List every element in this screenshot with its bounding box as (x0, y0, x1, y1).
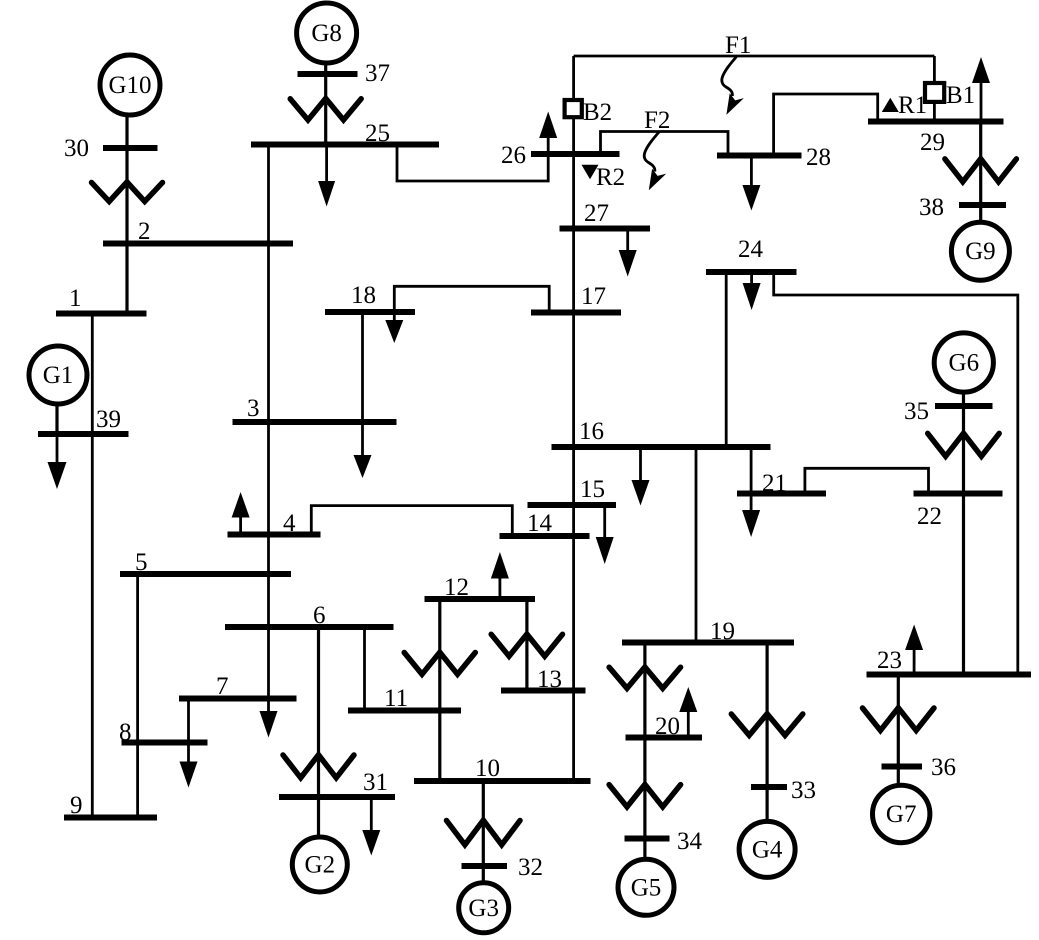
wire 7-8 and load arrow bus 8 (187, 699, 190, 763)
wire G7 leg (897, 675, 900, 786)
transformer T38 (G9) (945, 159, 1017, 182)
svg-text:19: 19 (710, 618, 735, 645)
wire G3 leg (482, 781, 485, 883)
transformer T12a (12-11) (404, 652, 475, 674)
svg-text:30: 30 (64, 135, 89, 162)
transformer T20b (20-34) (609, 784, 681, 806)
wire 16-24 (725, 272, 728, 447)
svg-text:G10: G10 (108, 72, 151, 99)
svg-text:32: 32 (518, 854, 543, 881)
bus 6 (225, 624, 394, 630)
svg-text:14: 14 (527, 510, 553, 537)
wire 4-14 (311, 506, 512, 536)
wire F2 line 26-28 (601, 132, 729, 156)
generator G2 (292, 837, 347, 892)
bus 13 (501, 688, 586, 694)
bus 27 (560, 226, 651, 232)
transformer T33 (19-33) (731, 714, 803, 736)
generator G8 (297, 3, 357, 63)
svg-text:G2: G2 (305, 852, 336, 879)
generator G3 (459, 883, 509, 933)
bus 3 (233, 419, 397, 425)
svg-text:22: 22 (917, 503, 942, 530)
bus 21 (737, 491, 826, 497)
load arrow below bus 7 (260, 711, 278, 738)
bus 24 (706, 269, 797, 275)
generator G10 (100, 55, 160, 115)
bus 10 (414, 778, 591, 784)
svg-text:21: 21 (762, 470, 787, 497)
gen arrow bus 12 (498, 578, 501, 600)
relay R2 triangle (582, 165, 599, 179)
relay R1 triangle (882, 98, 899, 112)
bus 33 (751, 784, 787, 790)
bus 11 (348, 708, 461, 714)
svg-text:G7: G7 (886, 801, 917, 828)
bus 38 (959, 202, 1006, 208)
svg-text:18: 18 (351, 282, 376, 309)
wire G10 to bus 2 to bus 1 (125, 115, 128, 314)
wire 12-11-10 left leg (438, 599, 441, 781)
bus 31 (279, 794, 395, 800)
svg-text:G4: G4 (752, 836, 783, 863)
svg-text:G1: G1 (43, 362, 74, 389)
svg-text:31: 31 (363, 769, 388, 796)
svg-text:27: 27 (584, 200, 609, 227)
svg-text:34: 34 (677, 828, 703, 855)
wire 1-39-9 (91, 314, 94, 818)
svg-text:12: 12 (444, 574, 469, 601)
load arrow bus 31 (370, 797, 373, 831)
wire 16-21 and load arrow bus 21 (750, 447, 753, 511)
transformer T35 (G6) (928, 433, 1000, 456)
breaker B1 (925, 83, 944, 102)
svg-text:8: 8 (119, 719, 132, 746)
bus 19 (622, 640, 794, 646)
svg-text:35: 35 (904, 398, 929, 425)
wire 19-33 G4 leg (765, 643, 768, 822)
wire G8 leg to bus 25 (324, 63, 327, 145)
wire G6-35-22-23 (962, 392, 965, 675)
svg-text:23: 23 (877, 647, 902, 674)
bus 15 (528, 502, 617, 508)
svg-text:F2: F2 (644, 107, 670, 134)
svg-text:G9: G9 (965, 238, 996, 265)
transformer T20a (19-20) (609, 667, 681, 688)
bus 26 (531, 151, 620, 157)
wire drop through B1 to bus 29 (933, 56, 936, 122)
wire 28 up to 29 (774, 94, 878, 156)
svg-text:R2: R2 (596, 164, 625, 191)
generator G6 (934, 333, 993, 392)
wire 12-13 right leg (525, 599, 528, 691)
bus 39 (38, 431, 129, 437)
breaker B2 (565, 100, 582, 117)
bus 17 (531, 310, 621, 316)
wire 5-8-9 (136, 574, 139, 818)
load arrow bus 39 (56, 434, 59, 463)
svg-text:F1: F1 (725, 32, 751, 59)
svg-text:3: 3 (247, 395, 260, 422)
svg-text:6: 6 (313, 602, 326, 629)
bus 23 (867, 672, 1032, 678)
bus 16 (552, 444, 771, 450)
bus 20 (626, 735, 703, 741)
load arrow bus 18 (393, 312, 396, 321)
bus 8 (122, 740, 208, 746)
wire 24-23 (774, 272, 1018, 675)
wire 18-17 (394, 286, 549, 312)
bus 12 (425, 596, 536, 602)
transformer T30 (G10) (92, 182, 163, 202)
svg-text:G3: G3 (468, 895, 499, 922)
bus 1 (56, 311, 147, 317)
wire 6-31 and G2 leg (317, 627, 320, 837)
transformer T32 (G3) (447, 820, 521, 845)
wire G9 leg (979, 122, 982, 223)
generator G4 (739, 821, 795, 877)
load arrow bus 15 (603, 505, 606, 538)
wire 25-26 (397, 145, 548, 182)
svg-text:24: 24 (738, 236, 764, 263)
generator G5 (618, 859, 674, 915)
bus 4 (228, 532, 321, 538)
wire 21-22 (805, 468, 929, 493)
bus 25 (251, 142, 439, 148)
svg-text:15: 15 (580, 476, 605, 503)
load arrow bus 25 (325, 145, 328, 183)
bus 22 (914, 491, 1003, 497)
bus 9 (64, 815, 157, 821)
gen arrow bus 29 (980, 82, 983, 122)
svg-text:B2: B2 (583, 99, 612, 126)
svg-text:B1: B1 (946, 82, 975, 109)
wire 16-19 (695, 447, 698, 643)
svg-text:G6: G6 (949, 350, 980, 377)
transformer T12b (12-13) (491, 634, 562, 656)
svg-text:39: 39 (96, 406, 121, 433)
bus 5 (120, 571, 291, 577)
svg-text:4: 4 (283, 510, 296, 537)
bus 14 (500, 533, 590, 539)
svg-text:16: 16 (579, 418, 604, 445)
transformer T36 (G7) (863, 708, 935, 731)
transformer T37 (G8) (290, 98, 361, 120)
svg-text:20: 20 (655, 713, 680, 740)
svg-text:26: 26 (501, 142, 526, 169)
generator G9 (951, 222, 1009, 280)
gen arrow bus 23 (913, 649, 916, 675)
svg-text:25: 25 (365, 120, 390, 147)
load arrow bus 27 (626, 229, 629, 252)
bus 32 (462, 863, 508, 869)
gen arrow bus 4 (239, 517, 242, 535)
svg-text:29: 29 (920, 129, 945, 156)
bus 34 (625, 836, 670, 842)
transformer T31 (G2) (283, 755, 354, 778)
wire F1 line 26-29 top (574, 55, 935, 58)
svg-text:7: 7 (216, 673, 229, 700)
bus 35 (935, 403, 993, 409)
bus 18 (325, 309, 415, 315)
svg-text:R1: R1 (898, 92, 927, 119)
load arrow bus 28 (750, 156, 753, 187)
svg-text:11: 11 (384, 685, 408, 712)
gen arrow bus 26 (547, 137, 550, 154)
fault F2 bolt (644, 132, 666, 190)
fault F1 bolt (722, 57, 744, 115)
bus 37 (298, 71, 358, 77)
load arrow bus 16 (639, 447, 642, 481)
wire G1 leg (55, 404, 58, 434)
load arrow bus 24 (750, 272, 753, 284)
svg-text:33: 33 (791, 777, 816, 804)
bus 36 (882, 764, 923, 770)
bus 28 (717, 153, 802, 159)
svg-text:5: 5 (135, 549, 148, 576)
generator G7 (873, 785, 930, 842)
svg-text:G8: G8 (311, 20, 342, 47)
bus 29 (868, 119, 1004, 125)
generator G1 (29, 346, 87, 404)
svg-text:2: 2 (138, 218, 151, 245)
bus 30 (103, 145, 158, 151)
svg-text:28: 28 (806, 144, 831, 171)
gen arrow bus 20 (687, 711, 690, 738)
bus 2 (103, 241, 293, 247)
svg-text:1: 1 (69, 285, 82, 312)
wire 3-18 and load arrow bus 3 (361, 312, 364, 456)
svg-text:17: 17 (581, 283, 606, 310)
svg-text:10: 10 (475, 755, 500, 782)
svg-text:38: 38 (919, 194, 944, 221)
svg-text:G5: G5 (631, 874, 662, 901)
wire 25-2-3-4-5-6-7 chain (267, 145, 270, 713)
svg-text:37: 37 (365, 60, 390, 87)
wire 19-20-34 G5 leg (643, 643, 646, 860)
wire main vertical 26-27-17-16-10 (572, 56, 575, 781)
wire 6-11 (363, 627, 366, 711)
svg-text:36: 36 (931, 754, 956, 781)
svg-text:9: 9 (70, 792, 83, 819)
svg-text:13: 13 (537, 666, 562, 693)
bus 7 (179, 696, 297, 702)
